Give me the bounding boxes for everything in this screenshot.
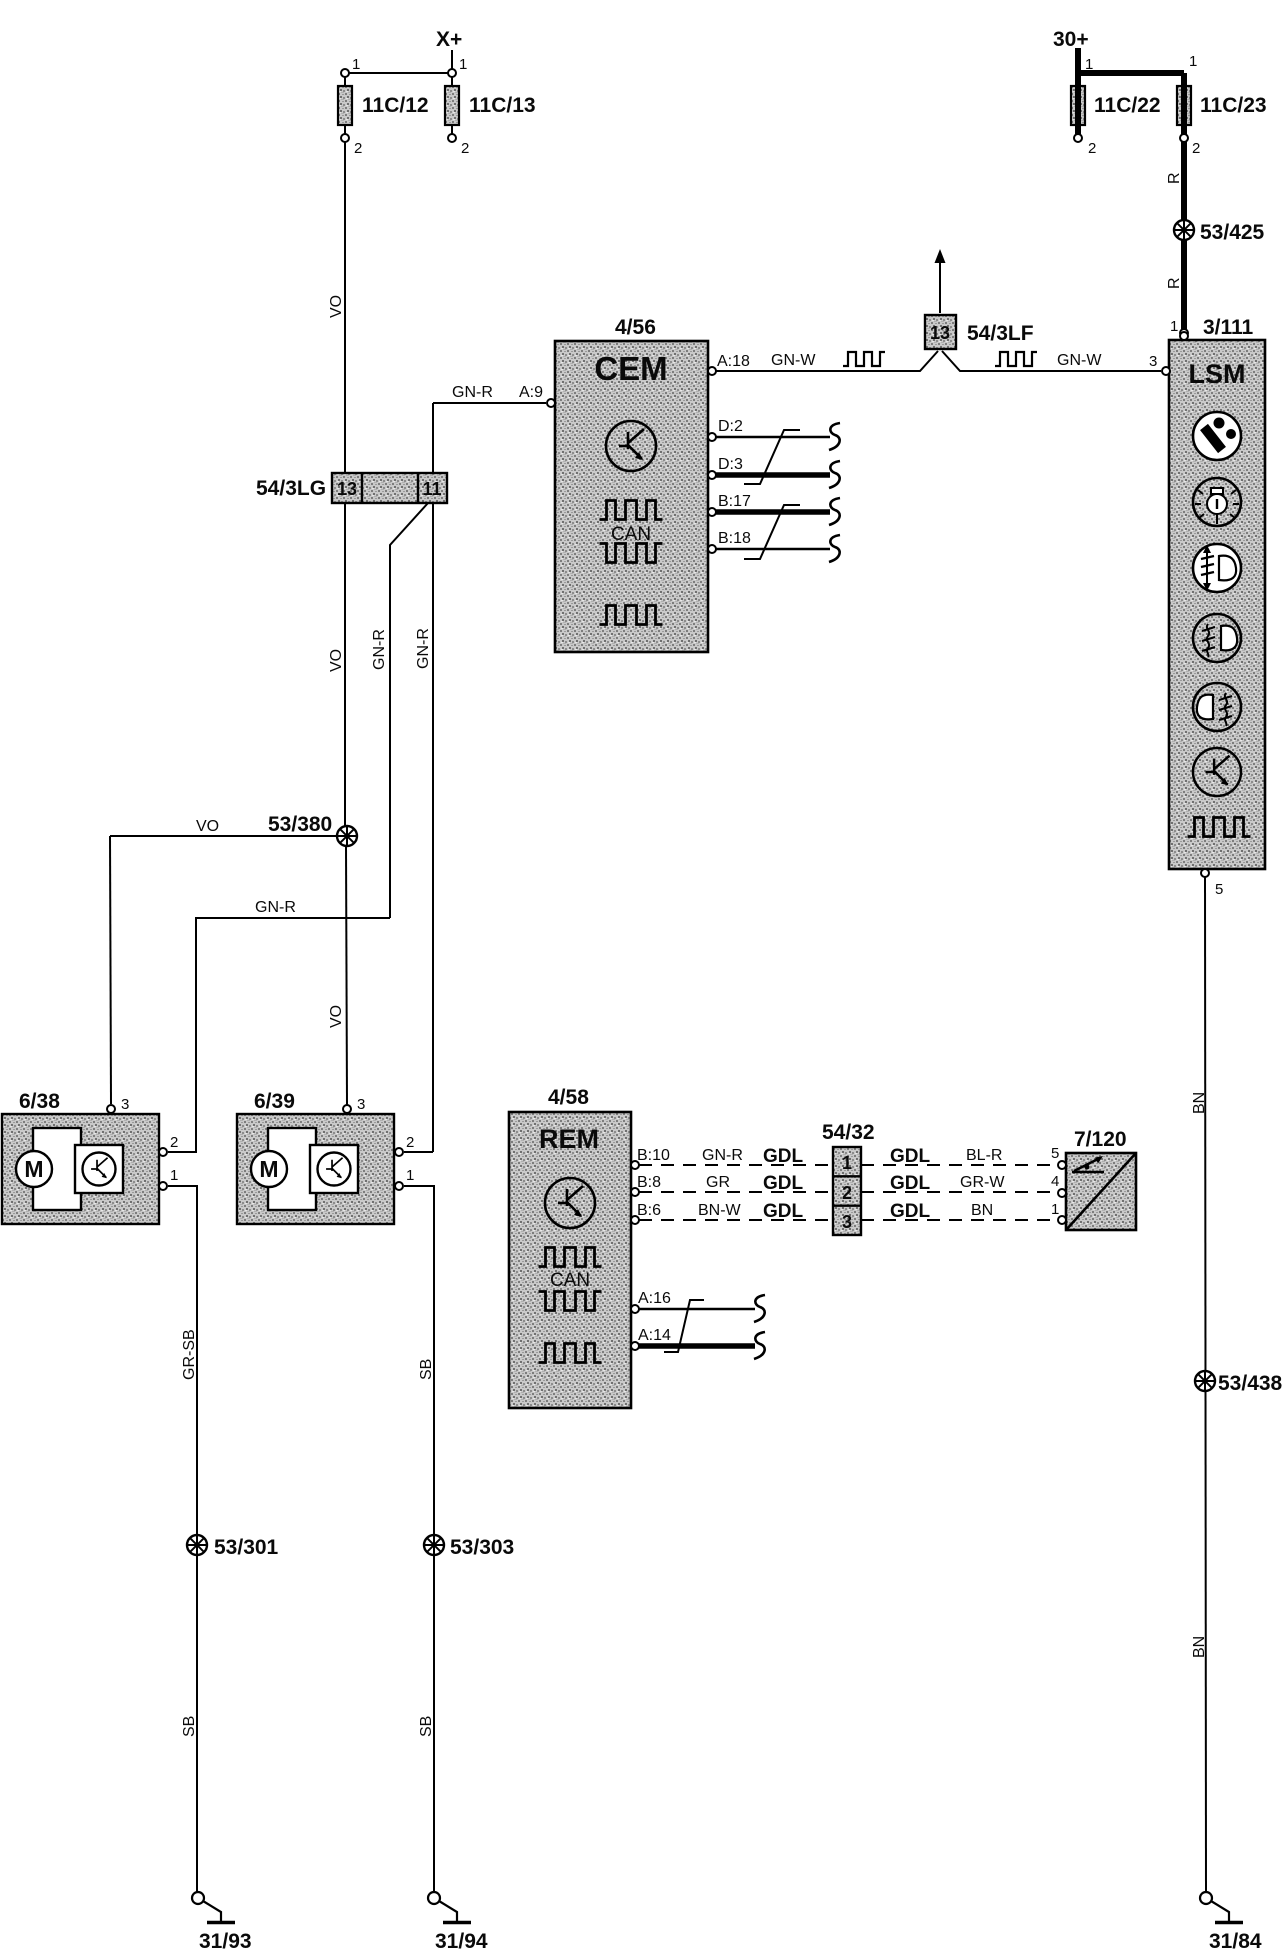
svg-text:D:2: D:2 [718,418,743,435]
svg-text:GDL: GDL [763,1201,804,1222]
svg-text:1: 1 [170,1167,178,1184]
svg-text:53/301: 53/301 [214,1536,279,1559]
svg-text:31/84: 31/84 [1209,1930,1262,1951]
svg-text:1: 1 [1051,1201,1059,1218]
svg-text:11C/22: 11C/22 [1094,94,1161,117]
svg-text:R: R [1166,172,1183,184]
svg-text:VO: VO [196,818,219,835]
svg-text:1: 1 [352,56,360,73]
svg-text:11C/13: 11C/13 [469,94,536,117]
svg-text:B:8: B:8 [637,1174,661,1191]
svg-text:3/111: 3/111 [1203,316,1254,339]
svg-text:GN-R: GN-R [452,384,493,401]
svg-text:GDL: GDL [890,1146,931,1167]
svg-text:SB: SB [418,1359,435,1380]
svg-text:VO: VO [328,1005,345,1028]
svg-text:X+: X+ [436,28,462,51]
svg-text:BN: BN [1191,1636,1208,1658]
svg-text:B:18: B:18 [718,530,751,547]
svg-text:GDL: GDL [763,1146,804,1167]
svg-text:SB: SB [181,1716,198,1737]
svg-text:CAN: CAN [550,1270,590,1291]
svg-text:GN-R: GN-R [371,629,388,670]
svg-text:4: 4 [1051,1173,1059,1190]
svg-text:3: 3 [1149,353,1157,370]
svg-text:GDL: GDL [763,1173,804,1194]
svg-text:1: 1 [1189,53,1197,70]
svg-text:GN-R: GN-R [255,899,296,916]
svg-text:6/39: 6/39 [254,1090,295,1113]
svg-text:B:10: B:10 [637,1147,670,1164]
svg-text:1: 1 [842,1153,852,1173]
svg-text:1: 1 [459,56,467,73]
svg-text:2: 2 [461,140,469,157]
svg-text:GR-W: GR-W [960,1174,1005,1191]
svg-text:2: 2 [1192,140,1200,157]
svg-text:53/438: 53/438 [1218,1372,1282,1395]
svg-text:30+: 30+ [1053,28,1089,51]
svg-text:GN-R: GN-R [415,628,432,669]
svg-text:A:14: A:14 [638,1327,671,1344]
svg-text:2: 2 [406,1134,414,1151]
svg-text:7/120: 7/120 [1074,1128,1127,1151]
svg-text:D:3: D:3 [718,456,743,473]
svg-text:1: 1 [406,1167,414,1184]
svg-text:31/94: 31/94 [435,1930,488,1951]
svg-text:6/38: 6/38 [19,1090,60,1113]
svg-text:2: 2 [170,1134,178,1151]
svg-text:VO: VO [328,295,345,318]
svg-text:B:6: B:6 [637,1202,661,1219]
svg-text:GN-R: GN-R [702,1147,743,1164]
svg-text:11C/23: 11C/23 [1200,94,1267,117]
svg-text:GR: GR [706,1174,730,1191]
svg-text:BN-W: BN-W [698,1202,742,1219]
svg-text:2: 2 [842,1183,852,1203]
svg-text:GR-SB: GR-SB [181,1329,198,1380]
svg-text:4/56: 4/56 [615,316,656,339]
svg-text:A:18: A:18 [717,353,750,370]
svg-text:A:9: A:9 [519,384,543,401]
svg-text:BL-R: BL-R [966,1147,1002,1164]
svg-text:CAN: CAN [611,524,651,545]
svg-text:5: 5 [1051,1145,1059,1162]
svg-text:BN: BN [1191,1092,1208,1114]
svg-text:2: 2 [1088,140,1096,157]
svg-text:2: 2 [354,140,362,157]
svg-text:LSM: LSM [1189,359,1246,389]
svg-text:R: R [1166,277,1183,289]
svg-text:3: 3 [357,1096,365,1113]
svg-text:A:16: A:16 [638,1290,671,1307]
svg-text:53/425: 53/425 [1200,221,1265,244]
svg-text:SB: SB [418,1716,435,1737]
svg-text:VO: VO [328,649,345,672]
svg-text:53/303: 53/303 [450,1536,514,1559]
svg-text:GN-W: GN-W [1057,352,1102,369]
svg-text:GDL: GDL [890,1173,931,1194]
svg-text:CEM: CEM [594,350,667,387]
svg-text:GN-W: GN-W [771,352,816,369]
svg-text:REM: REM [539,1124,599,1154]
svg-text:11C/12: 11C/12 [362,94,429,117]
svg-text:1: 1 [1170,318,1178,335]
svg-text:B:17: B:17 [718,493,751,510]
svg-text:BN: BN [971,1202,993,1219]
svg-text:54/3LG: 54/3LG [256,477,326,500]
svg-text:13: 13 [930,323,950,343]
svg-text:53/380: 53/380 [268,813,332,836]
svg-text:GDL: GDL [890,1201,931,1222]
svg-text:13: 13 [337,479,357,499]
svg-text:1: 1 [1085,56,1093,73]
svg-text:54/3LF: 54/3LF [967,322,1034,345]
svg-text:54/32: 54/32 [822,1121,875,1144]
svg-text:3: 3 [842,1212,852,1232]
svg-text:11: 11 [422,479,441,499]
svg-text:5: 5 [1215,881,1223,898]
svg-text:31/93: 31/93 [199,1930,252,1951]
svg-text:3: 3 [121,1096,129,1113]
svg-text:4/58: 4/58 [548,1086,589,1109]
